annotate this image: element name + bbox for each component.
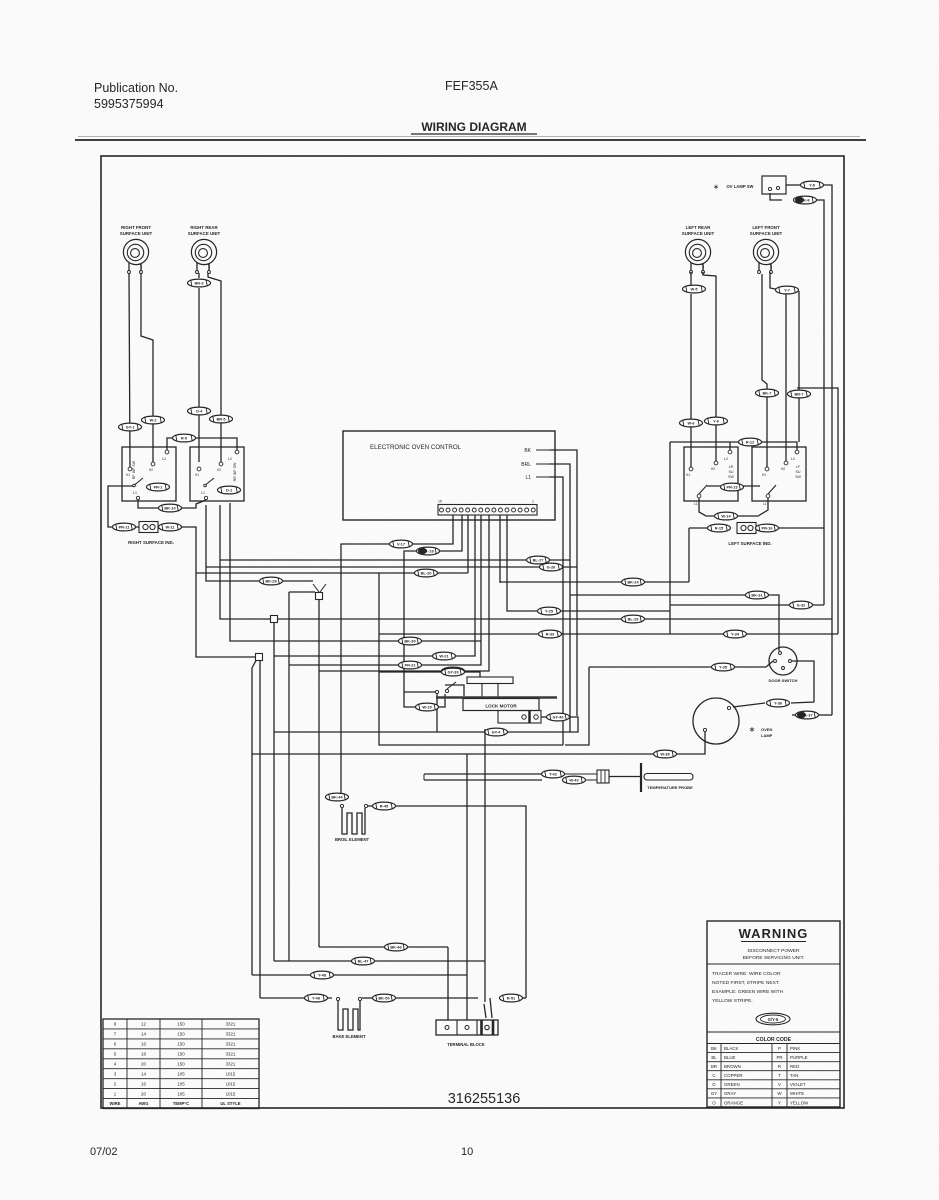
svg-text:W-43: W-43: [569, 778, 579, 783]
svg-text:Y: Y: [778, 1100, 781, 1105]
junction square B: [271, 616, 278, 623]
svg-text:WARNING: WARNING: [739, 926, 809, 941]
svg-text:150: 150: [177, 1022, 185, 1027]
wire run y947: [319, 946, 448, 948]
svg-text:BK-37: BK-37: [801, 713, 812, 718]
svg-text:BK-44: BK-44: [331, 795, 343, 800]
wire RF arm feed: [108, 486, 133, 527]
svg-text:BL-27: BL-27: [533, 558, 544, 563]
svg-text:Publication No.: Publication No.: [94, 81, 178, 95]
svg-text:H1: H1: [762, 473, 766, 477]
svg-text:R-9: R-9: [181, 436, 188, 441]
svg-text:ORANGE: ORANGE: [724, 1100, 743, 1105]
wire strip p14 to lock sw: [404, 515, 462, 707]
svg-text:BLUE: BLUE: [724, 1055, 736, 1060]
svg-text:L2: L2: [724, 457, 728, 461]
svg-text:LOCK MOTOR: LOCK MOTOR: [485, 704, 517, 709]
connector Y-34: [724, 630, 747, 638]
connector O-4: [188, 407, 211, 415]
RR infinite switch box: [190, 447, 244, 501]
svg-text:L1: L1: [133, 491, 137, 495]
svg-text:BEFORE SERVICING UNIT.: BEFORE SERVICING UNIT.: [743, 955, 805, 961]
connector W-38: [654, 750, 677, 758]
svg-text:LEFT FRONT: LEFT FRONT: [752, 225, 780, 230]
svg-text:SURFACE UNIT: SURFACE UNIT: [120, 231, 153, 236]
left rear surface unit: [682, 225, 715, 274]
svg-text:T-42: T-42: [549, 772, 558, 777]
wire strip p6 bus y560: [220, 559, 570, 561]
wire lock oval feed: [379, 671, 441, 673]
svg-text:Y-35: Y-35: [719, 665, 728, 670]
svg-text:316255136: 316255136: [448, 1091, 521, 1107]
connector R-45: [373, 802, 396, 810]
svg-text:GY-40: GY-40: [552, 715, 563, 720]
connector GY-23: [442, 667, 465, 675]
right front surface unit: [120, 225, 153, 274]
wire y619 bus: [278, 618, 832, 620]
svg-text:10: 10: [461, 1146, 473, 1158]
wire door right to lamp: [733, 661, 814, 707]
connector Y-6: [705, 417, 728, 425]
svg-text:1015: 1015: [226, 1091, 236, 1096]
wire bake right: [362, 997, 372, 999]
svg-text:L1: L1: [201, 491, 205, 495]
svg-text:BK-7: BK-7: [762, 391, 771, 396]
connector Y-8: [801, 181, 824, 189]
wire broil right: [368, 805, 372, 807]
svg-text:TEMPERATURE PROBE: TEMPERATURE PROBE: [647, 785, 693, 790]
svg-text:L1: L1: [525, 475, 531, 481]
svg-text:BAKE ELEMENT: BAKE ELEMENT: [332, 1034, 365, 1039]
lock contact box: [498, 711, 541, 724]
connector G-32: [790, 601, 813, 609]
svg-text:105: 105: [177, 1081, 185, 1086]
svg-text:L2: L2: [791, 457, 795, 461]
svg-text:Y-8: Y-8: [809, 183, 816, 188]
connector BL-29: [622, 615, 645, 623]
svg-text:BLACK: BLACK: [724, 1046, 738, 1051]
svg-text:TERMINAL BLOCK: TERMINAL BLOCK: [447, 1042, 485, 1047]
connector Y-48: [311, 971, 334, 979]
wire LR L1 to LF L1: [699, 498, 768, 516]
svg-text:GY-39: GY-39: [447, 670, 459, 675]
svg-text:20: 20: [141, 1091, 146, 1096]
connector BK-31: [746, 591, 769, 599]
svg-text:5995375994: 5995375994: [94, 97, 164, 111]
svg-text:V-17: V-17: [397, 542, 405, 547]
connector Y-7: [776, 286, 799, 294]
wire probe leads: [424, 774, 542, 780]
svg-text:W-19: W-19: [422, 705, 432, 710]
wire vC down: [252, 661, 260, 999]
svg-text:105: 105: [177, 1091, 185, 1096]
svg-text:LAMP: LAMP: [761, 733, 773, 738]
door switch: [769, 647, 798, 683]
svg-text:BL: BL: [711, 1055, 717, 1060]
wire run y961: [274, 960, 485, 962]
connector BK-7: [756, 389, 779, 397]
connector GY-40: [547, 713, 570, 721]
lock switch: [435, 682, 464, 696]
wire LR arm to LF arm: [707, 485, 760, 487]
wire strip p9: [499, 515, 501, 583]
oven lamp: [693, 698, 773, 744]
svg-text:UL STYLE: UL STYLE: [220, 1101, 240, 1106]
svg-text:GREEN: GREEN: [724, 1082, 740, 1087]
svg-text:BL-29: BL-29: [628, 617, 640, 622]
connector BK-44: [326, 793, 349, 801]
example connector G/Y-6: [756, 1013, 790, 1025]
svg-text:TAN: TAN: [790, 1073, 798, 1078]
wire oval r51 join: [499, 997, 526, 999]
wire y605: [670, 604, 824, 606]
svg-text:3321: 3321: [226, 1022, 236, 1027]
wire gauge table: [103, 1019, 259, 1109]
svg-text:BK: BK: [711, 1046, 717, 1051]
connector PR-13: [721, 483, 744, 491]
junction square A: [313, 584, 326, 600]
svg-text:WIRING DIAGRAM: WIRING DIAGRAM: [421, 120, 526, 134]
svg-text:AWG: AWG: [138, 1101, 148, 1106]
wire lamp-sw bottom to BK oval: [770, 193, 782, 200]
wire run y975: [252, 974, 467, 976]
svg-text:PR-16: PR-16: [761, 526, 773, 531]
wire v289: [288, 592, 290, 961]
svg-text:TEMP°C: TEMP°C: [173, 1101, 189, 1106]
svg-text:RIGHT FRONT: RIGHT FRONT: [121, 225, 151, 230]
wire v484: [484, 729, 486, 1002]
wire strip p11: [289, 515, 481, 665]
svg-text:BR: BR: [711, 1064, 717, 1069]
svg-text:OVEN: OVEN: [761, 727, 772, 732]
svg-text:BR-3: BR-3: [194, 281, 204, 286]
svg-text:Y-7: Y-7: [784, 288, 790, 293]
connector PR-11: [113, 523, 136, 531]
connector BK-24: [622, 578, 645, 586]
svg-text:DOOR SWITCH: DOOR SWITCH: [769, 678, 798, 683]
svg-text:Y-36: Y-36: [774, 701, 783, 706]
svg-text:H1: H1: [195, 473, 199, 477]
wire lamp bk join: [818, 714, 832, 716]
svg-text:L2: L2: [162, 457, 166, 461]
svg-text:H1: H1: [126, 473, 130, 477]
wire L2 link right pair: [670, 442, 797, 450]
svg-text:GY: GY: [711, 1091, 717, 1096]
connector GY-39: [442, 668, 465, 676]
connector W-2: [142, 416, 165, 424]
svg-text:3321: 3321: [226, 1061, 236, 1066]
svg-text:R-45: R-45: [380, 804, 389, 809]
svg-text:∗: ∗: [749, 725, 756, 734]
svg-text:BK-10: BK-10: [164, 506, 175, 511]
wire eoc L1 out: [549, 477, 563, 745]
connector BL-20: [415, 569, 438, 577]
svg-text:ELECTRONIC OVEN CONTROL: ELECTRONIC OVEN CONTROL: [370, 444, 462, 451]
terminal block: [436, 1020, 498, 1047]
wire v687: [688, 528, 690, 582]
svg-text:BL-47: BL-47: [358, 959, 369, 964]
broil element: [335, 804, 370, 842]
svg-text:R-33: R-33: [546, 632, 555, 637]
wire strip p15 to broil feed: [341, 515, 453, 797]
svg-text:1: 1: [532, 500, 534, 504]
svg-text:PR-1: PR-1: [154, 485, 164, 490]
svg-text:Y-49: Y-49: [312, 996, 321, 1001]
wire eoc BRL out: [549, 464, 570, 732]
svg-text:R-12: R-12: [746, 440, 755, 445]
svg-text:PR-11: PR-11: [119, 525, 131, 530]
wire door left: [565, 661, 773, 745]
svg-text:BROIL ELEMENT: BROIL ELEMENT: [335, 837, 370, 842]
svg-text:SU: SU: [729, 470, 734, 474]
svg-text:O-1: O-1: [226, 488, 233, 493]
wire vA down: [318, 600, 320, 948]
svg-text:BR-5: BR-5: [216, 417, 226, 422]
temperature probe: [564, 763, 693, 792]
wire left ind feed: [689, 527, 707, 529]
wire lock bar stub: [465, 672, 480, 677]
wire strip p13 left bus: [196, 515, 468, 573]
wire L2 link left pair: [167, 438, 237, 450]
RF infinite switch box: [122, 447, 176, 501]
svg-text:H1: H1: [686, 473, 690, 477]
svg-text:G/Y-6: G/Y-6: [768, 1017, 779, 1022]
svg-text:COPPER: COPPER: [724, 1073, 743, 1078]
svg-text:W-21: W-21: [439, 654, 449, 659]
wire lamp right: [792, 714, 796, 716]
connector R-15: [708, 524, 731, 532]
connector BK-8 dark: [794, 196, 817, 204]
wire run y999 left: [260, 997, 332, 999]
svg-text:PINK: PINK: [790, 1046, 800, 1051]
svg-text:BL-20: BL-20: [421, 571, 432, 576]
wire lock sw left: [404, 691, 435, 693]
connector BL-47: [352, 957, 375, 965]
svg-text:RR INF SW: RR INF SW: [233, 462, 237, 481]
svg-text:YELLOW STRIPE.: YELLOW STRIPE.: [712, 998, 753, 1004]
svg-text:NOTED FIRST, STRIPE NEXT.: NOTED FIRST, STRIPE NEXT.: [712, 980, 780, 986]
svg-text:EXAMPLE: GREEN WIRE WITH: EXAMPLE: GREEN WIRE WITH: [712, 989, 784, 995]
svg-text:LEFT SURFACE IND.: LEFT SURFACE IND.: [728, 541, 771, 546]
svg-text:LR: LR: [729, 465, 734, 469]
svg-text:15: 15: [438, 500, 442, 504]
wire strip p10: [319, 515, 489, 671]
svg-text:BK-31: BK-31: [751, 593, 763, 598]
svg-text:W-38: W-38: [660, 752, 670, 757]
connector BR-7: [788, 390, 811, 398]
connector R-33: [539, 630, 562, 638]
svg-text:L1: L1: [694, 502, 698, 506]
svg-text:H2: H2: [781, 467, 785, 471]
eoc terminal strip P1: [438, 500, 537, 516]
svg-text:1015: 1015: [226, 1081, 236, 1086]
wire RF right lead: [141, 273, 153, 462]
connector W-21: [433, 652, 456, 660]
connector W-5: [683, 285, 706, 293]
svg-text:BK-18: BK-18: [422, 549, 434, 554]
svg-text:O-4: O-4: [196, 409, 203, 414]
svg-text:PURPLE: PURPLE: [790, 1055, 808, 1060]
svg-text:BK: BK: [524, 448, 531, 454]
connector BK-30: [399, 637, 422, 645]
connector W-43: [563, 776, 586, 784]
svg-text:R-15: R-15: [715, 526, 724, 531]
LF surface switch box: [752, 447, 806, 506]
wire strip p8: [507, 515, 670, 611]
svg-text:DISCONNECT POWER: DISCONNECT POWER: [747, 948, 800, 954]
junction square C: [256, 654, 263, 661]
svg-text:150: 150: [177, 1042, 185, 1047]
wire v838: [797, 388, 838, 634]
svg-text:RIGHT REAR: RIGHT REAR: [190, 225, 218, 230]
svg-text:YELLOW: YELLOW: [790, 1100, 809, 1105]
svg-text:SW: SW: [728, 475, 734, 479]
svg-text:BK-30: BK-30: [404, 639, 415, 644]
wire LF L2 stub: [798, 291, 800, 442]
LR surface switch box: [684, 447, 738, 506]
svg-text:18: 18: [141, 1052, 146, 1057]
label right surface ind: [128, 540, 174, 545]
svg-text:RIGHT SURFACE IND.: RIGHT SURFACE IND.: [128, 540, 174, 545]
wire RF L1 to RR L1: [138, 500, 206, 508]
svg-text:GY-1: GY-1: [126, 425, 136, 430]
connector W-49: [305, 994, 328, 1002]
svg-text:SW: SW: [795, 475, 801, 479]
connector BK-50: [373, 994, 396, 1002]
wire y592 stub: [289, 591, 315, 593]
svg-text:T: T: [778, 1073, 781, 1078]
svg-text:C: C: [712, 1073, 715, 1078]
wire lock contact right: [541, 716, 546, 718]
wire door top feed: [570, 595, 779, 651]
svg-text:VIOLET: VIOLET: [790, 1082, 806, 1087]
warning box: [707, 921, 840, 1107]
connector W-19: [416, 703, 439, 711]
connector G-26: [540, 563, 563, 571]
lock cam bar: [467, 677, 513, 697]
svg-text:OV LAMP SW: OV LAMP SW: [727, 184, 754, 189]
wire lock sw drop: [436, 694, 438, 732]
svg-text:SURFACE UNIT: SURFACE UNIT: [188, 231, 221, 236]
svg-text:150: 150: [177, 1052, 185, 1057]
svg-text:RF INF SW: RF INF SW: [132, 460, 136, 479]
wire Y oval to right drop: [824, 185, 832, 715]
wire indicator to mesh: [182, 527, 257, 657]
wire BK oval right drop: [817, 200, 824, 605]
svg-text:12: 12: [141, 1022, 146, 1027]
svg-text:L2: L2: [228, 457, 232, 461]
wire lock loop left: [274, 731, 484, 733]
svg-text:Y-6: Y-6: [713, 419, 720, 424]
svg-text:W-2: W-2: [149, 418, 157, 423]
wire RR right lead: [208, 273, 221, 462]
svg-text:G-26: G-26: [547, 565, 556, 570]
svg-text:BK-24: BK-24: [627, 580, 639, 585]
connector R-9: [173, 434, 196, 442]
svg-text:H2: H2: [711, 467, 715, 471]
connector W-14: [715, 512, 738, 520]
left front surface unit: [750, 225, 783, 274]
text model FEF355A: [445, 79, 498, 93]
connector BR-3: [188, 279, 211, 287]
svg-text:BK-50: BK-50: [378, 996, 389, 1001]
part number: [448, 1091, 521, 1107]
connector R-51: [500, 994, 523, 1002]
svg-text:WIRE: WIRE: [110, 1101, 121, 1106]
svg-text:20: 20: [141, 1061, 146, 1066]
connector BR-5: [210, 415, 233, 423]
text publication no: [94, 81, 178, 111]
wire eoc BK out: [549, 450, 577, 716]
svg-text:16: 16: [141, 1042, 146, 1047]
wire LR right lead: [703, 272, 716, 461]
svg-text:W-11: W-11: [165, 525, 175, 530]
svg-text:Y-34: Y-34: [731, 632, 740, 637]
svg-text:R: R: [778, 1064, 781, 1069]
wire mesh v206: [206, 505, 313, 581]
svg-text:GY-4: GY-4: [492, 730, 502, 735]
label left surface ind: [728, 541, 771, 546]
connector W-6: [680, 419, 703, 427]
svg-text:BK-46: BK-46: [390, 945, 402, 950]
left surface indicator lamp: [737, 523, 756, 534]
svg-text:PR: PR: [776, 1055, 782, 1060]
lock motor thick bar: [436, 696, 557, 699]
svg-text:W-14: W-14: [721, 514, 731, 519]
connector V-17: [390, 540, 413, 548]
svg-text:WHITE: WHITE: [790, 1091, 804, 1096]
svg-text:RED: RED: [790, 1064, 799, 1069]
svg-text:SURFACE UNIT: SURFACE UNIT: [682, 231, 715, 236]
connector PR-1: [147, 483, 170, 491]
connector BK-37 dark: [796, 711, 819, 719]
svg-text:O: O: [712, 1100, 716, 1105]
svg-text:3321: 3321: [226, 1052, 236, 1057]
diagram border: [101, 156, 844, 1108]
svg-text:L1: L1: [763, 502, 767, 506]
connector O-1 in RR box: [218, 486, 241, 494]
svg-text:SURFACE UNIT: SURFACE UNIT: [750, 231, 783, 236]
wire y634 bus: [379, 633, 838, 635]
footer date: [90, 1146, 118, 1158]
right surface indicator lamp: [136, 522, 158, 533]
svg-text:BRL: BRL: [521, 462, 531, 468]
svg-text:1015: 1015: [226, 1071, 236, 1076]
color code table: [707, 1032, 840, 1107]
svg-text:LEFT REAR: LEFT REAR: [686, 225, 711, 230]
connector T-42: [542, 770, 565, 778]
wire LR left lead: [690, 272, 692, 467]
wire RR left lead: [198, 273, 200, 462]
svg-text:16: 16: [141, 1081, 146, 1086]
svg-text:W-5: W-5: [690, 287, 698, 292]
svg-text:H2: H2: [149, 468, 153, 472]
svg-text:R-51: R-51: [507, 996, 516, 1001]
svg-text:SU: SU: [796, 470, 801, 474]
svg-text:PR-13: PR-13: [726, 485, 738, 490]
svg-text:H2: H2: [217, 468, 221, 472]
title WIRING DIAGRAM: [75, 120, 866, 140]
wire broil vert drop: [379, 573, 563, 745]
svg-text:BK-8: BK-8: [800, 198, 810, 203]
footer page: [461, 1146, 473, 1158]
wire bus y583: [500, 581, 689, 583]
wire v467: [466, 754, 468, 1020]
wire mesh v230 y641: [230, 503, 481, 641]
connector BK-10: [159, 504, 182, 512]
connector Y-36: [767, 699, 790, 707]
wire lamp-sw to Y oval: [786, 184, 800, 186]
